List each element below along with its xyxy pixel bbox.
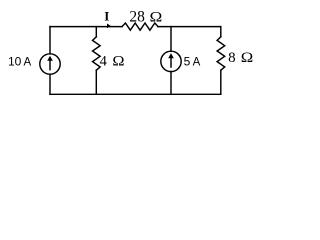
current source I1 arrow: [47, 56, 53, 71]
wire top-right segment: [158, 26, 221, 28]
wire 5A branch upper: [170, 27, 172, 52]
wire bottom: [50, 93, 221, 95]
svg-text:Ω: Ω: [150, 10, 163, 25]
svg-text:4: 4: [100, 53, 108, 69]
svg-text:28: 28: [129, 8, 145, 25]
svg-text:Ω: Ω: [112, 53, 124, 69]
current source I2 circle (5 A): [161, 51, 181, 71]
wire 5A branch lower: [170, 72, 172, 95]
wire 8ohm branch upper: [220, 27, 222, 37]
resistor 8ohm zigzag: [217, 37, 225, 70]
svg-text:A: A: [24, 57, 32, 69]
resistor 4ohm zigzag: [93, 37, 101, 70]
wire 4ohm branch upper: [95, 27, 97, 37]
wire top-left segment: [50, 26, 122, 28]
svg-text:A: A: [193, 57, 201, 69]
svg-text:5: 5: [184, 55, 191, 69]
wire 8ohm branch lower: [220, 70, 222, 94]
svg-text:I: I: [104, 9, 109, 24]
current arrow I on top wire: [107, 24, 111, 29]
svg-text:8: 8: [228, 50, 236, 66]
current source I1 circle (10 A): [40, 54, 60, 74]
wire 4ohm branch lower: [95, 70, 97, 94]
resistor 28ohm zigzag: [122, 23, 158, 30]
wire left branch upper: [49, 27, 51, 54]
svg-text:10: 10: [8, 55, 22, 69]
svg-text:Ω: Ω: [241, 50, 253, 66]
wire left branch lower: [49, 74, 51, 94]
current source I2 arrow: [168, 53, 174, 68]
